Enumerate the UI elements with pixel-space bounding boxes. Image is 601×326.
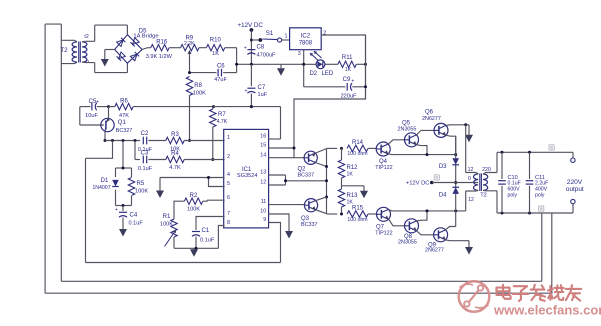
svg-text:Q1: Q1 (118, 120, 127, 126)
svg-text:R16: R16 (156, 40, 168, 46)
svg-text:R10: R10 (210, 38, 222, 44)
svg-text:0.1uF: 0.1uF (129, 221, 144, 227)
svg-text:R2: R2 (190, 193, 198, 199)
svg-text:4: 4 (227, 172, 230, 178)
svg-text:R14: R14 (352, 140, 364, 146)
svg-text:BC327: BC327 (116, 128, 132, 134)
svg-text:1: 1 (227, 135, 230, 141)
svg-text:LED: LED (322, 71, 334, 77)
svg-text:D1: D1 (101, 178, 109, 184)
svg-text:+: + (96, 100, 99, 106)
svg-text:TIP122: TIP122 (375, 231, 392, 237)
svg-text:10: 10 (260, 209, 266, 215)
svg-text:+12V DC: +12V DC (238, 22, 264, 29)
svg-text:D4: D4 (439, 193, 447, 199)
svg-text:R11: R11 (342, 55, 353, 61)
svg-text:13: 13 (260, 170, 266, 176)
svg-text:R13: R13 (347, 193, 359, 199)
svg-text:C9: C9 (343, 77, 351, 83)
svg-text:10uF: 10uF (85, 113, 98, 119)
svg-text:C8: C8 (257, 45, 265, 51)
svg-text:D3: D3 (439, 164, 447, 170)
svg-text:100 ohm: 100 ohm (347, 217, 367, 223)
svg-text:TIP122: TIP122 (375, 165, 392, 171)
svg-text:www.elecfans.com: www.elecfans.com (493, 303, 601, 318)
svg-text:1K: 1K (347, 172, 354, 178)
svg-text:9: 9 (263, 217, 266, 223)
svg-text:1A Bridge: 1A Bridge (133, 34, 158, 40)
svg-text:220V: 220V (567, 179, 583, 186)
svg-text:2N3055: 2N3055 (398, 240, 417, 246)
svg-text:1N4007: 1N4007 (92, 185, 110, 191)
svg-text:4700uF: 4700uF (257, 52, 277, 58)
svg-text:4.7K: 4.7K (169, 165, 181, 171)
svg-text:100K: 100K (187, 206, 200, 212)
svg-text:C6: C6 (217, 63, 225, 69)
svg-text:S1: S1 (266, 30, 274, 37)
svg-text:R5: R5 (137, 181, 145, 187)
svg-text:220uF: 220uF (341, 93, 357, 99)
svg-text:T2: T2 (480, 192, 487, 198)
svg-text:47K: 47K (119, 113, 129, 119)
svg-text:C7: C7 (258, 85, 266, 91)
svg-text:+: + (351, 79, 354, 85)
svg-text:+12V DC: +12V DC (406, 180, 430, 186)
svg-text:R12: R12 (347, 165, 359, 171)
svg-text:100K: 100K (193, 91, 206, 97)
svg-text:1uF: 1uF (258, 92, 268, 98)
svg-text:C3: C3 (141, 150, 149, 156)
svg-text:1K: 1K (212, 51, 219, 57)
svg-text:C2: C2 (141, 131, 149, 137)
svg-text:2.2K: 2.2K (184, 41, 195, 47)
svg-text:T2: T2 (60, 47, 68, 54)
svg-text:8: 8 (227, 220, 230, 226)
svg-text:BC337: BC337 (301, 222, 317, 228)
svg-text:R3: R3 (171, 132, 179, 138)
svg-text:IC2: IC2 (301, 34, 311, 40)
svg-text:100K: 100K (160, 221, 173, 227)
svg-text:R6: R6 (120, 98, 128, 104)
svg-text:D2: D2 (309, 71, 317, 77)
svg-text:0: 0 (468, 176, 471, 182)
svg-text:100K: 100K (135, 189, 148, 195)
svg-text:16: 16 (260, 134, 266, 140)
svg-text:47uF: 47uF (214, 77, 227, 83)
svg-text:SG3524: SG3524 (237, 173, 258, 179)
svg-text:o: o (86, 59, 89, 65)
svg-text:poly: poly (508, 192, 518, 198)
svg-text:12: 12 (468, 167, 474, 173)
svg-text:4.7K: 4.7K (217, 119, 228, 125)
svg-text:R7: R7 (218, 112, 226, 118)
svg-text:R4: R4 (171, 151, 179, 157)
svg-text:11: 11 (261, 199, 267, 205)
svg-text:1: 1 (285, 34, 288, 40)
svg-text:2N6277: 2N6277 (425, 248, 444, 254)
svg-text:1K: 1K (345, 67, 352, 73)
svg-text:15: 15 (260, 143, 266, 149)
svg-text:6: 6 (227, 195, 230, 201)
svg-text:220: 220 (482, 167, 491, 173)
svg-text:C1: C1 (202, 228, 210, 234)
svg-text:0.1uF: 0.1uF (200, 237, 215, 243)
svg-text:output: output (566, 186, 584, 193)
svg-text:2: 2 (227, 154, 230, 160)
svg-text:BC337: BC337 (298, 172, 314, 178)
svg-text:7: 7 (227, 211, 230, 217)
svg-text:R15: R15 (352, 206, 364, 212)
svg-text:7808: 7808 (299, 41, 313, 47)
svg-text:100 ohm: 100 ohm (347, 151, 367, 157)
svg-text:+: + (115, 207, 118, 213)
svg-text:R8: R8 (194, 83, 202, 89)
svg-text:Q6: Q6 (425, 110, 434, 116)
svg-text:2: 2 (323, 31, 326, 37)
svg-text:0.1uF: 0.1uF (138, 166, 153, 172)
svg-text:C4: C4 (130, 213, 138, 219)
svg-text:poly: poly (535, 192, 545, 198)
svg-text:+: + (244, 45, 247, 51)
svg-text:+: + (245, 88, 248, 94)
svg-text:R1: R1 (163, 214, 171, 220)
svg-text:2N3055: 2N3055 (398, 127, 417, 133)
svg-text:12: 12 (468, 197, 474, 203)
svg-text:14: 14 (260, 152, 266, 158)
svg-text:5: 5 (227, 181, 230, 187)
svg-text:2N6277: 2N6277 (422, 116, 441, 122)
svg-text:3.9K 1/2W: 3.9K 1/2W (146, 54, 173, 60)
svg-text:3: 3 (298, 51, 301, 57)
svg-text:t2: t2 (84, 34, 88, 40)
svg-text:12: 12 (260, 180, 266, 186)
